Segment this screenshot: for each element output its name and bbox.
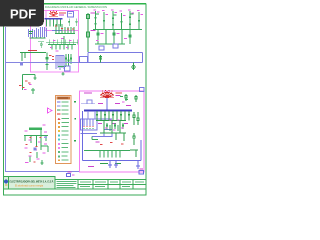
zone box: inner compartment border (45, 11, 47, 31)
auxiliary symbol (green, right of T2) (125, 94, 137, 102)
legend row: surge arrester icon (58, 147, 60, 149)
zone box: generation section (magenta, bottom right) (80, 91, 145, 172)
wire: DC loop (blue) (92, 130, 112, 137)
label: transformer T2 note (magenta) (84, 93, 92, 94)
capacitor bank CB1 (blue boxes) (99, 46, 104, 50)
DC feeder group (green, beside panelboard) (58, 54, 72, 67)
legend row: transformer icon (58, 118, 61, 121)
label: panelboard text (green) (29, 31, 46, 39)
zone box: divider of incoming section (45, 30, 79, 32)
svg-text:El alumbrado como energia: El alumbrado como energia (15, 185, 44, 188)
relay block (blue, left inside box) (81, 100, 95, 104)
tap point marks (green, right of legend) (74, 101, 76, 142)
svg-text:DIAGRAMA UNIFILAR GENERAL SUBE: DIAGRAMA UNIFILAR GENERAL SUBESTACION (45, 5, 107, 9)
MCC cluster (green, center of generation box) (106, 123, 123, 131)
junction box JB1 (green bar) (29, 128, 42, 130)
wire: left green feeder row (20, 53, 46, 62)
wire: lower green row in generation box (100, 121, 126, 142)
legend row: cable type 2 (blue) (57, 106, 61, 107)
wire: bottom bus in generation box (blue) (83, 111, 142, 161)
label: tie feeder tag (red) (49, 54, 51, 57)
legend row: fuse icon (58, 126, 60, 128)
legend row: relay icon (58, 143, 60, 145)
breaker tick marks (46, 22, 61, 23)
secondary drops (top-right, below bus) (95, 30, 131, 45)
label: DC row dots (green) (99, 155, 116, 156)
legend box (56, 96, 72, 164)
transfer switch TS1 (blue box on LV bus) (80, 57, 88, 63)
incomer riser (green with labels, right of box) (87, 13, 90, 52)
transformer T2 (red fan, large) (100, 91, 114, 98)
ground stub below incoming box (green) (62, 72, 65, 76)
ground grid marks (blue, below bottom bus) (108, 161, 140, 170)
breaker ticks (green) (96, 114, 130, 115)
wire: DC bus extension (blue) (97, 118, 112, 120)
wire: bus to panelboard (blue) (87, 111, 89, 119)
legend row: CT icon (58, 134, 60, 136)
rectifier REC1 (blue symbol) (65, 66, 71, 71)
wire: DC distribution row (green, long) (84, 137, 130, 158)
wire: bottom horizontal blue bus (6, 171, 80, 173)
wire: secondary blue bus (52, 30, 62, 32)
label: MCC tags (magenta) (105, 120, 124, 131)
label: battery tag (magenta) (96, 141, 100, 144)
wire: T2 secondary drop (blue) (106, 98, 108, 110)
label: transformer T2 tag (red) (116, 93, 123, 94)
svg-text:PDF: PDF (10, 6, 36, 21)
label: sub-panel dots (green) (83, 128, 93, 129)
panelboard PB2 (blue picket fence center) (56, 56, 65, 71)
label: panel tag (magenta) (56, 50, 59, 53)
utility meter UM1 (small marks above title block) (67, 172, 75, 177)
bus: generation bus (thick blue) (84, 110, 132, 112)
legend row: note icon (58, 159, 60, 161)
label: transformer T1 value (59, 13, 66, 14)
label: panel tags (red) (52, 56, 54, 60)
label: feeder tags (magenta, in generation box) (98, 103, 131, 124)
label: aux tag (magenta) (122, 101, 125, 104)
wire: left vertical blue bus (5, 27, 7, 172)
ground riser GR1 (green, below incoming box) (23, 75, 37, 95)
meter M3 (blue mark) (34, 148, 37, 151)
label: left feeder tag (red) (28, 50, 37, 51)
tie feeder (green vertical, center-left) (46, 53, 49, 71)
aux cell (green, left of box) (38, 42, 44, 49)
label: bottom notes in generation box (green) (100, 163, 121, 164)
panelboard PB1 (blue picket fence under badge) (29, 27, 47, 38)
generator G1 (green symbol right) (132, 63, 135, 71)
label: riser tags (magenta) (94, 10, 143, 16)
border frame of schematic sheet (4, 4, 147, 195)
title block (4, 177, 56, 190)
service entry SE1 (marks right, above title block) (139, 169, 144, 175)
meter M2 (blue mark) (20, 62, 23, 66)
legend row: cable type 1 (blue) (57, 102, 61, 103)
aux green dashes (right of fan) (120, 96, 128, 100)
label: bottom note (magenta) (88, 166, 94, 167)
legend row: bond icon (58, 155, 60, 157)
legend row: disconnect icon (58, 122, 60, 124)
label: T1 crown dots (red) (50, 11, 57, 12)
breaker Q1 group (green drops from main bus) (47, 20, 61, 27)
legend row: cable type 3 (green) (57, 110, 61, 111)
aux meter (blue box, right of generation box top) (140, 88, 145, 92)
aux contact (blue dash) (44, 137, 47, 139)
label: T2 crown dots (red) (102, 90, 112, 92)
label: secondary tags (magenta) (96, 33, 127, 41)
label: cluster tags (magenta) (25, 125, 47, 163)
legend row: PT icon (58, 139, 60, 141)
relay cell row (green, upper) (46, 40, 78, 45)
legend row: cable type 4 (red) (57, 114, 61, 115)
bus: right LV ring (blue) (88, 53, 143, 63)
wire: right-side green feeders in generation box (130, 112, 139, 157)
node arrow marker (magenta) (48, 108, 53, 113)
wire: green distribution row (48, 36, 76, 50)
label: ground riser tags (magenta) (24, 84, 32, 90)
feeder breakers (green, inside generation box) (96, 111, 129, 121)
feeder cluster F1 (green verticals center) (55, 24, 75, 34)
legend row: ground icon (58, 151, 60, 153)
wire: cluster bus (green) (24, 130, 48, 166)
label: sub-panel fuse marks (red) (83, 125, 93, 128)
label: feeder tags (red) (55, 26, 74, 30)
breaker symbols on risers (green ticks) (95, 17, 140, 26)
label: ground riser tags (red) (19, 81, 30, 88)
label: lower tags (red) (100, 142, 124, 145)
load L1 (green drop mid bus) (99, 55, 101, 63)
label: cluster tags (red) (26, 137, 42, 162)
distribution risers (top-right green verticals) (93, 11, 142, 30)
label: incomer tags (magenta) (91, 13, 96, 32)
title block table texts (green) (57, 181, 145, 188)
label: distribution tags (magenta) (50, 38, 72, 48)
transformer T1 (red fan symbol) (49, 12, 58, 17)
svg-text:ELECTRIFICADORA DEL META S.A.: ELECTRIFICADORA DEL META S.A. E.S.P. (10, 180, 54, 184)
meter M1 (blue box) (68, 12, 74, 18)
switchgear row (green, right compartment of incoming box) (68, 19, 77, 27)
logo (company emblem) (4, 180, 8, 184)
wire: long LV bus (blue) (6, 62, 88, 64)
panelboard PB3 (blue sub-panel with drops) (81, 119, 98, 134)
PDF badge (0, 0, 44, 27)
bus: main 13.2kV bus (thick blue) (45, 18, 63, 19)
legend row: meter icon (58, 130, 60, 132)
title banner text (top) (45, 5, 107, 9)
zone box: incoming section (magenta) (31, 11, 79, 73)
